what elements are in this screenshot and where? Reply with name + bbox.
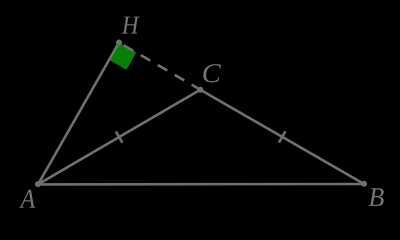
label C: [203, 64, 221, 82]
wire: dashed segment H-C: [119, 43, 200, 90]
tick mark on A-C: [116, 131, 123, 142]
wire: segment A-C: [38, 90, 200, 185]
node H: [116, 40, 122, 46]
label A: [19, 190, 35, 208]
node B: [361, 181, 367, 187]
label H: [122, 17, 140, 34]
tick mark on C-B: [279, 131, 285, 142]
right-angle marker (green square) at H: [109, 43, 136, 70]
node C: [197, 87, 203, 93]
wire: side A-B: [38, 183, 364, 186]
wire: segment A-H: [38, 43, 119, 185]
node A: [35, 181, 41, 187]
label B: [369, 188, 384, 206]
wire: segment C-B: [200, 90, 364, 184]
